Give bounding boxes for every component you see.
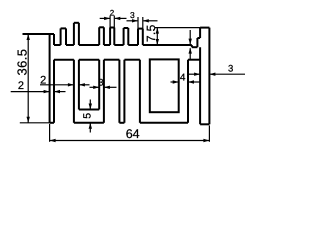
svg-text:7.5: 7.5 xyxy=(144,24,158,42)
dim 3 (right fin) line with arrow xyxy=(210,73,245,75)
dim 7.5 top extension line xyxy=(155,27,200,29)
dim 64 right arrow xyxy=(203,139,209,142)
tall fin bottom xyxy=(200,123,209,125)
slot 4 left side (wall4 right) xyxy=(123,60,125,123)
left wall / fin A top edge (with 36.5 top extension) xyxy=(23,33,55,35)
dim 2 (fin E) left arrow xyxy=(100,17,110,19)
slot 2 top xyxy=(79,59,99,61)
left wall inner edge upper (fin A right side) xyxy=(53,34,55,45)
dim 64 line xyxy=(50,140,210,142)
step floor xyxy=(192,46,198,48)
slot 3 top xyxy=(104,59,120,61)
svg-text:4: 4 xyxy=(180,73,186,84)
dim 36.5 bottom extension line xyxy=(20,122,50,124)
dim 3 (right fin) left arrow xyxy=(189,73,200,75)
heatsink profile: left wall outer edge xyxy=(49,34,51,123)
bottom edge segment 1 (under walls 2,3 and slot2 floor) xyxy=(74,122,104,124)
dim 2 (fin E) extension lines xyxy=(109,16,111,28)
slot 4 top xyxy=(124,59,139,61)
dim 2 (wall1) right arrow xyxy=(55,91,66,93)
fin G xyxy=(137,29,139,45)
slot d floor xyxy=(114,44,123,46)
svg-text:2: 2 xyxy=(18,80,24,92)
dim 5 upper arrow xyxy=(89,100,91,109)
left wall inner edge lower (slot 1 left side) xyxy=(53,60,55,123)
slot 3 left side xyxy=(103,60,105,123)
dim 64 left extension line xyxy=(49,124,51,142)
dim 3 (fin G) extension lines xyxy=(137,17,139,29)
dim 2 (wall2) left arrow xyxy=(40,84,73,86)
step dim upper arrow xyxy=(189,30,191,44)
dim 36.5 bottom arrow xyxy=(27,117,30,123)
wall6 right side (right slot left) xyxy=(187,60,189,123)
svg-text:36.5: 36.5 xyxy=(14,49,29,76)
dim 4 (wall6) left arrow xyxy=(171,81,179,83)
hook top xyxy=(197,37,200,39)
bottom edge segment 2 (wall5 to wall6) xyxy=(140,122,188,124)
dim 4 (wall6) right arrow xyxy=(189,81,200,83)
slot 2 right side xyxy=(98,60,100,110)
slot b floor xyxy=(66,44,74,46)
slot 3 right side (wall4 left) xyxy=(118,60,120,123)
slot a floor xyxy=(54,44,61,46)
svg-text:64: 64 xyxy=(126,127,140,141)
svg-text:3: 3 xyxy=(130,10,135,20)
dim 7.5 top arrow xyxy=(156,28,159,34)
slot 1 top xyxy=(54,59,74,61)
dim 36.5 top arrow xyxy=(27,34,30,40)
svg-text:3: 3 xyxy=(98,78,103,89)
fin E xyxy=(109,28,111,46)
slot 1 right side (wall2 left) xyxy=(73,60,75,123)
step dim lower arrow xyxy=(189,48,191,60)
fin D (wall3 top) xyxy=(98,27,100,45)
right slot top xyxy=(188,59,200,61)
left wall bottom edge xyxy=(50,122,54,124)
dim 64 right extension line xyxy=(208,126,210,142)
dim 3 (fin G) left arrow xyxy=(127,20,138,22)
slot 2 bottom xyxy=(79,109,99,111)
slot c floor xyxy=(104,44,110,46)
tall fin top xyxy=(200,27,209,29)
dim 2 (fin E) right arrow xyxy=(115,17,127,19)
dim 3 (wall3) right arrow xyxy=(105,86,117,88)
dim 3 (fin G) right arrow xyxy=(143,20,157,22)
dim 3 (wall3) left arrow xyxy=(90,86,99,88)
slot 4 right side (wall5 left) xyxy=(139,60,141,123)
tall fin right edge xyxy=(208,28,210,125)
tall fin left edge lower xyxy=(199,47,201,124)
right top surface xyxy=(143,44,192,46)
slot 2 left side xyxy=(78,60,80,110)
heatsink extrusion profile drawing 64 x 36.5 xyxy=(0,0,259,153)
dim 36.5 line xyxy=(27,34,29,123)
slot e floor xyxy=(128,44,138,46)
dim 5 lower arrow xyxy=(89,124,91,133)
dim 7.5 bottom arrow xyxy=(156,39,159,45)
fin B xyxy=(60,28,62,45)
dim 2 (wall2) right arrow xyxy=(80,84,90,86)
big slot outline xyxy=(150,59,179,112)
step down edge xyxy=(191,45,193,47)
fin C (tall, wall2 top) xyxy=(73,23,75,45)
dim 7.5 line xyxy=(156,28,158,45)
svg-text:3: 3 xyxy=(228,63,233,74)
tall fin left edge upper xyxy=(199,28,201,38)
dim 2 (wall1) left leader with arrow xyxy=(11,91,49,93)
fin F xyxy=(123,28,125,45)
svg-text:2: 2 xyxy=(110,8,115,17)
dim 64 left arrow xyxy=(50,139,56,142)
svg-text:5: 5 xyxy=(81,113,93,119)
wide flat top surface xyxy=(79,44,99,46)
wall4 bottom xyxy=(119,122,124,124)
hook left side xyxy=(196,38,198,47)
